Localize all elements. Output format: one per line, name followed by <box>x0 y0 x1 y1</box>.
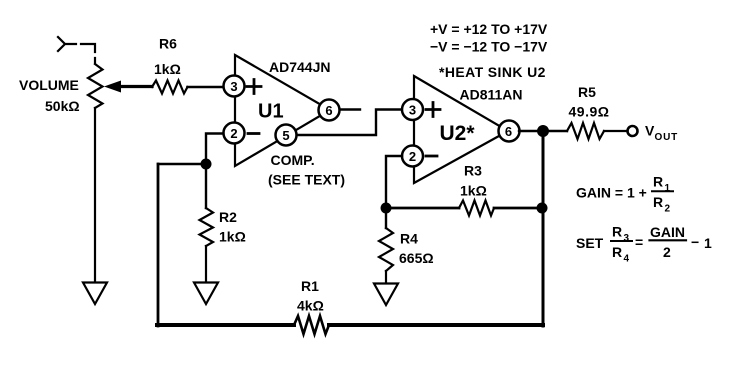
wire wiper to R6 <box>119 85 152 88</box>
wire junction down to R4 <box>385 213 387 228</box>
resistor R3 <box>459 201 494 216</box>
ground (R2) <box>194 283 218 305</box>
label VOUT <box>645 123 678 144</box>
svg-text:R5: R5 <box>578 84 596 100</box>
svg-text:50kΩ: 50kΩ <box>45 98 80 114</box>
svg-text:1kΩ: 1kΩ <box>460 183 487 199</box>
svg-text:COMP.: COMP. <box>271 152 315 168</box>
wire U1 pin2 to feedback junction <box>206 134 223 160</box>
svg-text:GAIN = 1 +: GAIN = 1 + <box>576 185 647 201</box>
svg-text:AD811AN: AD811AN <box>460 87 523 103</box>
svg-text:(SEE TEXT): (SEE TEXT) <box>268 172 345 188</box>
output terminal <box>628 126 638 136</box>
wire pot bottom to ground <box>94 108 96 281</box>
formula SET R3/R4 = GAIN/2 - 1 <box>576 224 712 265</box>
svg-text:5: 5 <box>282 128 289 143</box>
svg-text:6: 6 <box>325 103 332 118</box>
wire bottom rail left of R1 <box>157 323 294 327</box>
resistor R2 <box>200 208 214 246</box>
wire R5 to output terminal <box>604 130 627 132</box>
svg-text:R4: R4 <box>400 231 418 247</box>
pin 2 U1 <box>224 123 245 144</box>
svg-text:3: 3 <box>409 103 416 118</box>
node feedback junction (U1) <box>201 159 212 170</box>
svg-text:665Ω: 665Ω <box>399 250 434 266</box>
wire junction down to R2 <box>205 164 207 208</box>
pin 3 U1 <box>224 76 245 97</box>
svg-text:1kΩ: 1kΩ <box>219 229 246 245</box>
svg-text:AD744JN: AD744JN <box>269 59 330 75</box>
svg-text:=: = <box>635 234 643 250</box>
wire U1 pin6 stub <box>340 108 360 110</box>
svg-text:U1: U1 <box>258 101 284 123</box>
wire U2 pin2 to R3/R4 junction <box>386 156 402 202</box>
wire junction to R5 <box>543 130 567 132</box>
svg-text:2: 2 <box>665 204 671 215</box>
svg-text:1kΩ: 1kΩ <box>154 61 181 77</box>
svg-text:R: R <box>612 244 622 260</box>
svg-text:2: 2 <box>663 244 671 260</box>
svg-text:4kΩ: 4kΩ <box>297 298 324 314</box>
potentiometer VOLUME 50k (zigzag element) <box>88 64 103 108</box>
svg-text:*HEAT SINK U2: *HEAT SINK U2 <box>439 64 546 80</box>
wire junction to left rail <box>158 163 206 165</box>
svg-text:2: 2 <box>409 149 416 164</box>
wire left rail down <box>157 164 160 326</box>
pin 5 U1 <box>276 125 297 146</box>
svg-text:R2: R2 <box>219 209 237 225</box>
ground (R4) <box>374 284 398 306</box>
wire R3 to right rail junction <box>494 207 537 210</box>
svg-text:2: 2 <box>230 126 237 141</box>
svg-text:R: R <box>612 224 622 240</box>
ground (pot) <box>83 283 107 305</box>
wire right rail down <box>542 131 545 326</box>
pin 2 U2 <box>402 146 423 167</box>
wire R6 to U1 pin3 <box>188 86 224 89</box>
resistor R6 <box>152 81 188 94</box>
svg-text:4: 4 <box>624 254 630 265</box>
plus sign U2 <box>426 103 440 117</box>
minus sign U2 <box>426 155 437 158</box>
svg-text:OUT: OUT <box>655 132 679 143</box>
resistor R4 <box>379 228 393 271</box>
wire R2 to ground <box>205 246 207 282</box>
wire R4 to ground <box>385 271 387 283</box>
pin 6 U1 <box>319 100 340 121</box>
input jack connector <box>58 37 95 63</box>
op-amp U2 <box>414 76 508 183</box>
svg-text:+V = +12 TO +17V: +V = +12 TO +17V <box>430 21 548 37</box>
node output junction <box>537 125 549 137</box>
svg-text:−V = −12 TO −17V: −V = −12 TO −17V <box>430 39 548 55</box>
svg-text:6: 6 <box>505 124 512 139</box>
minus sign U1 <box>248 132 259 135</box>
svg-text:GAIN: GAIN <box>650 224 685 240</box>
node R3/R4 junction <box>381 203 392 214</box>
pin 3 U2 <box>402 99 423 120</box>
plus sign U1 <box>247 80 261 94</box>
pin 6 U2 <box>499 121 520 142</box>
node right rail / R3 junction <box>537 203 548 214</box>
wire U1 pin5 to U2 pin3 <box>297 110 402 136</box>
svg-text:49.9Ω: 49.9Ω <box>569 104 610 120</box>
svg-text:R1: R1 <box>301 278 319 294</box>
svg-text:VOLUME: VOLUME <box>19 77 79 93</box>
op-amp U1 <box>235 55 330 166</box>
svg-text:R: R <box>653 194 663 210</box>
svg-text:U2*: U2* <box>440 122 476 145</box>
svg-text:SET: SET <box>576 235 604 251</box>
svg-text:3: 3 <box>624 233 630 244</box>
wiper arrow <box>104 81 121 93</box>
svg-text:−: − <box>691 234 699 250</box>
wire bottom rail right of R1 <box>329 323 543 327</box>
svg-text:R: R <box>653 174 663 190</box>
svg-text:1: 1 <box>704 235 712 251</box>
svg-text:R6: R6 <box>159 36 177 52</box>
svg-text:R3: R3 <box>464 163 482 179</box>
resistor R1 <box>294 316 329 334</box>
svg-text:1: 1 <box>665 183 671 194</box>
svg-text:V: V <box>645 123 655 139</box>
wire U2 pin6 to output junction <box>519 130 543 132</box>
resistor R5 <box>567 123 604 139</box>
svg-text:3: 3 <box>230 79 237 94</box>
formula GAIN = 1 + R1/R2 <box>576 174 673 215</box>
wire junction to R3 <box>386 207 459 210</box>
